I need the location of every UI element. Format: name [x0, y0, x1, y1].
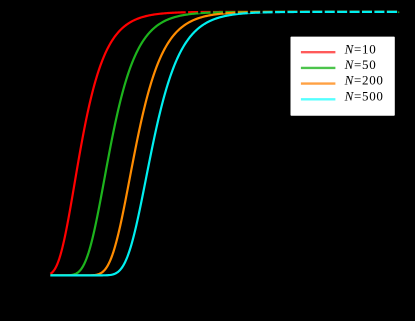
svg-text:N=500: N=500 [344, 88, 384, 103]
svg-text:N=50: N=50 [344, 57, 377, 72]
svg-text:N=10: N=10 [344, 41, 377, 56]
svg-text:N=200: N=200 [344, 73, 384, 88]
